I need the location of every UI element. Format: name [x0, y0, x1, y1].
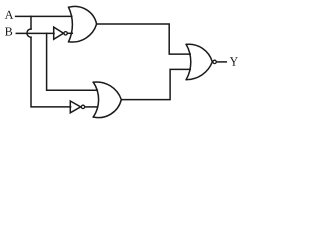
inverter NOT2 on A tap: [70, 101, 97, 113]
label B: [5, 27, 12, 35]
wire A tap vertical lower: [31, 37, 71, 107]
inverter NOT1 on B: [54, 27, 73, 39]
label A: [5, 11, 14, 19]
wire G2 output to NOR lower input: [121, 69, 190, 99]
wire Y output: [217, 61, 227, 63]
label Y: [230, 57, 238, 66]
wire B input: [16, 32, 54, 34]
or-gate G1 top: [69, 6, 97, 42]
or-gate G2 bottom: [93, 82, 121, 118]
wire G1 output to NOR upper input: [97, 24, 191, 54]
wire B tap vertical: [47, 33, 98, 90]
wire hop over B: [27, 29, 31, 37]
wire A tap vertical upper: [30, 16, 32, 29]
nor-gate G3 output: [186, 44, 216, 79]
wire A input: [16, 15, 72, 17]
